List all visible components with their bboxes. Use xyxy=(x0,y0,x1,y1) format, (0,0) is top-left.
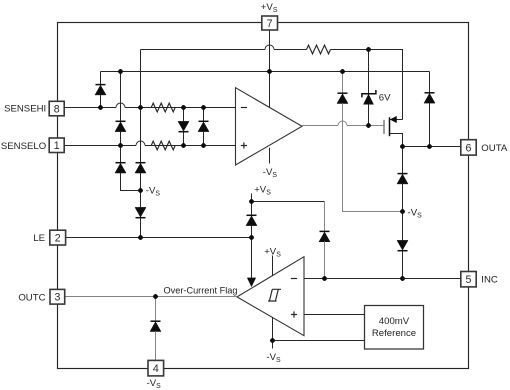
diode D2 clamp rail to SENSELO xyxy=(115,72,126,146)
label -Vs left clamp node xyxy=(146,185,161,197)
wire top rail to Q1 drain xyxy=(402,50,404,120)
label Over-Current Flag xyxy=(163,285,237,295)
svg-text:2: 2 xyxy=(55,233,61,245)
pin 6 box xyxy=(461,140,476,155)
zener Z1 6V top rail to U1 output xyxy=(362,50,391,126)
svg-text:SENSELO: SENSELO xyxy=(1,141,46,152)
svg-text:-VS: -VS xyxy=(266,352,281,364)
wire over-current flag line pin3 to U2 apex xyxy=(65,296,238,298)
IC boundary box xyxy=(58,23,469,369)
hysteresis symbol U2 xyxy=(268,289,281,301)
svg-text:SENSEHI: SENSEHI xyxy=(4,103,46,114)
pin 8 box xyxy=(49,101,64,116)
pin 7 box xyxy=(262,16,278,30)
diode D11 INC to -Vs node points down xyxy=(397,212,408,279)
400mV reference box xyxy=(365,306,424,350)
op-amp U1 xyxy=(236,88,303,165)
label -Vs U1 xyxy=(263,167,278,179)
transistor Q1 DMOS output xyxy=(384,116,403,146)
wire U2 -Vs stub xyxy=(272,317,274,348)
label SENSELO xyxy=(1,141,46,152)
comparator U2 over-current xyxy=(237,257,304,336)
diode D9 clamp rail end to OUTA xyxy=(424,72,435,147)
svg-text:INC: INC xyxy=(481,275,498,286)
svg-text:6: 6 xyxy=(466,142,472,154)
label +Vs U2 xyxy=(264,246,281,258)
wire SENSEHI line pin8 to U1 minus with hop xyxy=(65,103,236,108)
svg-text:+VS: +VS xyxy=(264,246,281,258)
pin 2 box xyxy=(50,230,66,245)
label -Vs U2 xyxy=(266,352,281,364)
wire INC line U2 minus to pin5 xyxy=(304,278,461,280)
wire U1 -Vs stub xyxy=(269,148,271,164)
label -Vs right clamp node xyxy=(408,208,423,220)
wire LE line pin2 to latch column xyxy=(66,237,252,239)
svg-text:+VS: +VS xyxy=(261,2,278,14)
svg-text:-VS: -VS xyxy=(263,167,278,179)
svg-text:OUTC: OUTC xyxy=(18,292,45,303)
wire U1 output to Q1 gate with hop xyxy=(302,121,384,126)
label +Vs pin7 xyxy=(261,2,278,14)
wire pin7 +Vs stem to U1 top edge xyxy=(269,30,271,107)
svg-text:1: 1 xyxy=(54,140,60,152)
svg-text:-VS: -VS xyxy=(146,185,161,197)
pin 5 box xyxy=(461,272,476,287)
diode D1 SENSEHI to clamp rail xyxy=(95,72,106,108)
wire U2 +Vs stub xyxy=(272,256,274,276)
diode D7 between U1 inputs points up xyxy=(198,108,209,146)
svg-text:Over-Current Flag: Over-Current Flag xyxy=(163,285,237,295)
label -Vs pin4 xyxy=(147,378,162,390)
diode D3 SENSELO to -Vs node xyxy=(115,146,141,191)
diode D4 SENSEHI to -Vs node xyxy=(135,50,146,191)
pin 3 box xyxy=(50,289,65,304)
svg-text:LE: LE xyxy=(33,233,45,244)
svg-text:8: 8 xyxy=(54,103,60,115)
diode D13 INC clamp to +Vs xyxy=(319,202,330,279)
svg-text:+VS: +VS xyxy=(254,185,271,197)
wire top rail with hop over pin7 stem xyxy=(141,45,404,50)
svg-text:4: 4 xyxy=(153,363,159,375)
resistor R1 SENSEHI input xyxy=(145,103,175,112)
diode D12 latch column xyxy=(246,215,257,237)
label INC xyxy=(481,275,498,286)
svg-text:7: 7 xyxy=(267,18,273,30)
pin 4 box xyxy=(148,360,164,376)
diode D8 clamp rail to -Vs link xyxy=(337,72,403,212)
label OUTC xyxy=(18,292,45,303)
svg-text:5: 5 xyxy=(466,274,472,286)
wire reference box bottom to U2 -Vs stub xyxy=(273,340,365,342)
label LE xyxy=(33,233,45,244)
latch enable arrow into U2 xyxy=(247,238,255,287)
svg-text:OUTA: OUTA xyxy=(481,143,508,154)
wire U2 plus to reference box xyxy=(304,314,365,316)
wire +Vs branch above U2 xyxy=(252,194,325,216)
diode D14 flag line to pin4 xyxy=(150,297,161,361)
svg-text:6V: 6V xyxy=(379,92,391,103)
pin 1 box xyxy=(49,138,64,153)
wire OUTA line Q1 source to pin6 xyxy=(403,146,461,148)
diode D6 between U1 inputs points down xyxy=(178,108,189,146)
label +Vs latch column xyxy=(254,185,271,197)
diode D5 -Vs node to LE line points down xyxy=(135,191,146,238)
label OUTA xyxy=(481,143,508,154)
wire SENSELO line pin1 to U1 plus with hop xyxy=(65,141,236,145)
svg-text:3: 3 xyxy=(54,292,60,304)
wire clamp rail H2 xyxy=(101,71,430,73)
svg-text:Reference: Reference xyxy=(372,328,416,339)
svg-text:400mV: 400mV xyxy=(379,316,410,327)
resistor R2 SENSELO input xyxy=(145,141,175,150)
resistor R3 top rail xyxy=(307,45,331,54)
diode D10 OUTA to -Vs node xyxy=(397,147,408,212)
label SENSEHI xyxy=(4,103,46,114)
svg-text:-VS: -VS xyxy=(147,378,162,390)
svg-text:-VS: -VS xyxy=(408,208,423,220)
